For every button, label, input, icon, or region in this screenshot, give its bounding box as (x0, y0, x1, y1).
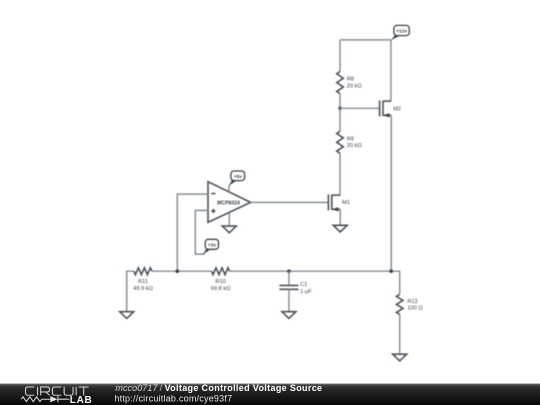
svg-text:100 Ω: 100 Ω (407, 306, 422, 312)
svg-text:20 kΩ: 20 kΩ (347, 83, 362, 89)
svg-text:http://circuitlab.com/cye93f7: http://circuitlab.com/cye93f7 (114, 394, 232, 404)
svg-text:20 kΩ: 20 kΩ (347, 143, 362, 149)
footer title text (114, 383, 322, 403)
footer bar (0, 384, 540, 405)
svg-text:R9: R9 (347, 137, 354, 143)
svg-text:69.8 kΩ: 69.8 kΩ (211, 286, 231, 292)
ground R11 (120, 312, 134, 319)
svg-text:+5v: +5v (234, 174, 243, 180)
resistor R8 (337, 72, 362, 94)
logo CIRCUIT LAB (21, 387, 92, 405)
wire op-amp V+ pin (228, 185, 230, 192)
node junction R8/R9/M2 gate (338, 107, 342, 111)
svg-text:C1: C1 (300, 282, 307, 288)
resistor R10 (211, 268, 231, 292)
svg-text:M2: M2 (393, 106, 401, 112)
svg-text:+12v: +12v (396, 28, 407, 34)
wire gate node down to R9 (339, 108, 341, 131)
wire +12v rail down to R8 (339, 40, 341, 72)
wire R9 bottom to M1 drain (339, 153, 341, 195)
svg-text:LAB: LAB (70, 395, 93, 405)
ground C1 (282, 312, 296, 319)
wire C1 top lead (288, 271, 290, 285)
wire op-amp V- pin to ground (228, 213, 230, 226)
wire bottom net left: R11 lead and ground lead (127, 271, 134, 312)
transistor M1 (328, 195, 350, 212)
wire R8 bottom to gate node (339, 94, 341, 109)
svg-text:R10: R10 (215, 279, 225, 285)
node junction C1 top (287, 269, 291, 273)
svg-text:+3v: +3v (208, 242, 217, 248)
node +5v supply tag (229, 171, 245, 186)
resistor R12 (396, 294, 422, 314)
wire R10 to output corner (230, 271, 400, 294)
svg-text:R8: R8 (347, 77, 354, 83)
capacitor C1 (279, 282, 312, 295)
svg-text:R12: R12 (407, 299, 417, 305)
node junction M2 source / bottom net (389, 269, 393, 273)
resistor R9 (337, 131, 362, 153)
svg-text:R11: R11 (138, 279, 148, 285)
node +12v supply tag (391, 25, 410, 40)
wire C1 bottom lead (288, 289, 290, 311)
svg-text:MCP6024: MCP6024 (217, 200, 240, 206)
resistor R11 (133, 268, 153, 292)
ground M1 (333, 225, 347, 232)
node junction feedback/bottom net (176, 269, 180, 273)
op-amp U1 MCP6024 (208, 182, 251, 223)
ground R12 (393, 354, 407, 361)
wire M1 source to ground (339, 209, 341, 225)
node +3v supply tag (203, 239, 219, 254)
wire inverting input feedback (177, 194, 208, 271)
wire +12v rail down to M2 drain (390, 40, 392, 101)
svg-text:1 µF: 1 µF (300, 289, 312, 295)
svg-text:mcco0717: mcco0717 (115, 383, 158, 393)
wire M2 source down to output node (390, 115, 392, 271)
ground op-amp (222, 226, 236, 233)
wire M2 gate (340, 107, 379, 109)
svg-text:49.9 kΩ: 49.9 kΩ (133, 286, 153, 292)
svg-text:Voltage Controlled Voltage Sou: Voltage Controlled Voltage Source (165, 383, 323, 393)
wire R11 to R10 (152, 270, 212, 272)
wire R12 bottom lead (399, 314, 401, 354)
wire non-inverting input to +3v (195, 210, 208, 254)
transistor M2 (380, 101, 402, 118)
wire op-amp output to M1 gate (251, 201, 328, 203)
wire top rail horizontal (340, 39, 391, 41)
svg-text:M1: M1 (342, 200, 350, 206)
